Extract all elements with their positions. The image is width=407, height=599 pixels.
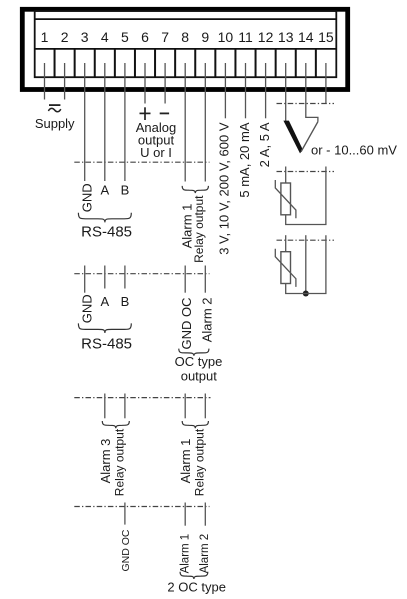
svg-text:Alarm 2: Alarm 2 [200,298,215,343]
svg-text:Alarm 2: Alarm 2 [199,534,211,574]
wire terminal 6 [144,63,146,104]
svg-text:14: 14 [298,29,314,45]
svg-text:2 OC type: 2 OC type [167,580,226,595]
wire terminal 2 [64,63,66,100]
svg-text:A: A [100,294,109,309]
wire stub x=205.3 section 2 OC [204,266,206,293]
sensor section divider line C [277,239,335,241]
svg-text:5 mA, 20 mA: 5 mA, 20 mA [237,122,252,197]
thermocouple positive leg (thick) [283,121,302,154]
brace OC type section 2 [179,349,209,356]
terminal divider 3/4 [94,49,96,77]
RTD2 strike line [275,249,296,287]
svg-text:15: 15 [318,29,334,45]
svg-text:7: 7 [161,29,169,45]
RTD1 tick wire 15 [286,167,326,225]
label OC type output [175,354,223,383]
terminal divider 2/3 [74,49,76,77]
section divider line 4 [74,506,209,508]
svg-text:2 A, 5 A: 2 A, 5 A [257,122,272,167]
svg-text:output: output [181,368,218,383]
label Analog output U or I [136,120,176,160]
terminal divider 5/6 [134,49,136,77]
terminal boxes top line [35,48,337,50]
terminal divider 10/11 [234,49,236,77]
wire stub alarm1 section 4 [184,503,186,526]
svg-text:Relay output: Relay output [193,428,207,496]
wire stub x=185.2 section 2 OC [184,266,186,293]
svg-text:B: B [121,183,130,198]
svg-text:3: 3 [81,29,89,45]
svg-text:GND: GND [79,183,94,212]
wire stub x=124.9 section 3 [124,394,126,419]
terminal divider 11/12 [255,49,257,77]
wire terminal 15 [325,63,327,104]
wire terminal 7 [164,63,166,104]
svg-text:2: 2 [61,29,69,45]
svg-text:B: B [121,294,130,309]
svg-text:13: 13 [278,29,294,45]
svg-text:Alarm 1: Alarm 1 [179,534,191,574]
sensor section divider line B [277,171,335,173]
svg-text:6: 6 [141,29,149,45]
wire stub x=205.3 section 3 [204,394,206,419]
terminal divider 6/7 [154,49,156,77]
svg-text:or - 10...60 mV: or - 10...60 mV [311,143,397,158]
svg-text:Alarm 1: Alarm 1 [178,439,193,484]
terminal block top strip line [35,18,337,20]
svg-text:9: 9 [201,29,209,45]
svg-text:Relay output: Relay output [192,195,206,263]
terminal divider 1/2 [54,49,56,77]
RTD2 tick wire 13 [285,235,287,252]
RTD2 resistor body [281,252,291,284]
wire terminal 10 [224,63,226,118]
svg-text:OC type: OC type [175,354,223,369]
brace 2 OC type [180,572,208,579]
wire stub x=84.7 section 2 [84,266,86,293]
wire stub x=104.8 section 3 [104,394,106,419]
svg-text:3 V, 10 V, 200 V, 600 V: 3 V, 10 V, 200 V, 600 V [217,122,232,255]
wire stub x=104.8 section 2 [104,266,106,289]
wire terminal 8 [184,63,186,182]
AC supply symbol [48,105,60,112]
terminal divider 4/5 [114,49,116,77]
svg-text:Alarm 3: Alarm 3 [98,439,113,484]
minus sign terminal 7 [160,112,169,114]
wire terminal 4 [104,63,106,181]
terminal divider 12/13 [275,49,277,77]
brace RS-485 section 2 [78,323,131,333]
wire terminal 5 [124,63,126,181]
svg-text:8: 8 [181,29,189,45]
svg-text:10: 10 [218,29,234,45]
section divider line 1 [74,161,209,163]
wire terminal 9 [204,63,206,182]
svg-text:U or I: U or I [140,145,172,160]
wire stub GND OC section 4 [124,503,126,525]
svg-text:1: 1 [41,29,49,45]
svg-text:4: 4 [101,29,109,45]
wire stub alarm2 section 4 [204,503,206,526]
terminal divider 13/14 [295,49,297,77]
RTD2 tick wire 15 [286,235,326,293]
terminal block inner frame [35,11,337,77]
wire stub x=124.9 section 2 [124,266,126,289]
terminal block outer case [22,9,347,89]
brace alarm 3 relay [102,421,129,428]
brace RS-485 section 1 [78,213,131,223]
terminal divider 9/10 [214,49,216,77]
wire terminal 1 [44,63,46,100]
svg-text:GND OC: GND OC [179,298,194,350]
section divider line 3 [74,397,210,399]
svg-text:GND OC: GND OC [120,529,132,571]
plus sign terminal 6 [140,107,151,120]
terminal divider 7/8 [174,49,176,77]
svg-text:GND: GND [79,294,94,323]
RTD1 resistor body [281,183,291,215]
brace alarm relay section 1 [182,186,208,193]
RTD1 strike line [275,180,296,218]
wire terminal 13 [285,63,287,122]
section divider line 2 [74,273,209,275]
RTD1 tick wire 13 [285,167,287,184]
terminal divider 14/15 [315,49,317,77]
svg-text:RS-485: RS-485 [81,223,132,240]
wire terminal 14 to thermocouple [306,63,318,122]
wire stub x=185.2 section 3 [184,394,186,419]
RTD2 junction dot [303,291,309,297]
svg-text:11: 11 [238,29,253,45]
sensor section divider line A [277,103,335,105]
terminal divider 8/9 [194,49,196,77]
svg-text:RS-485: RS-485 [81,335,132,352]
wire terminal 11 [245,63,247,118]
svg-text:Supply: Supply [35,116,75,131]
wire terminal 12 [265,63,267,118]
brace alarm 1 relay section 3 [182,421,208,428]
svg-text:A: A [100,183,109,198]
RTD2 wire 14 to junction [305,235,307,293]
svg-text:5: 5 [121,29,129,45]
wire terminal 3 [84,63,86,181]
svg-text:12: 12 [258,29,274,45]
thermocouple negative leg [301,122,318,152]
svg-text:Relay output: Relay output [112,428,126,496]
